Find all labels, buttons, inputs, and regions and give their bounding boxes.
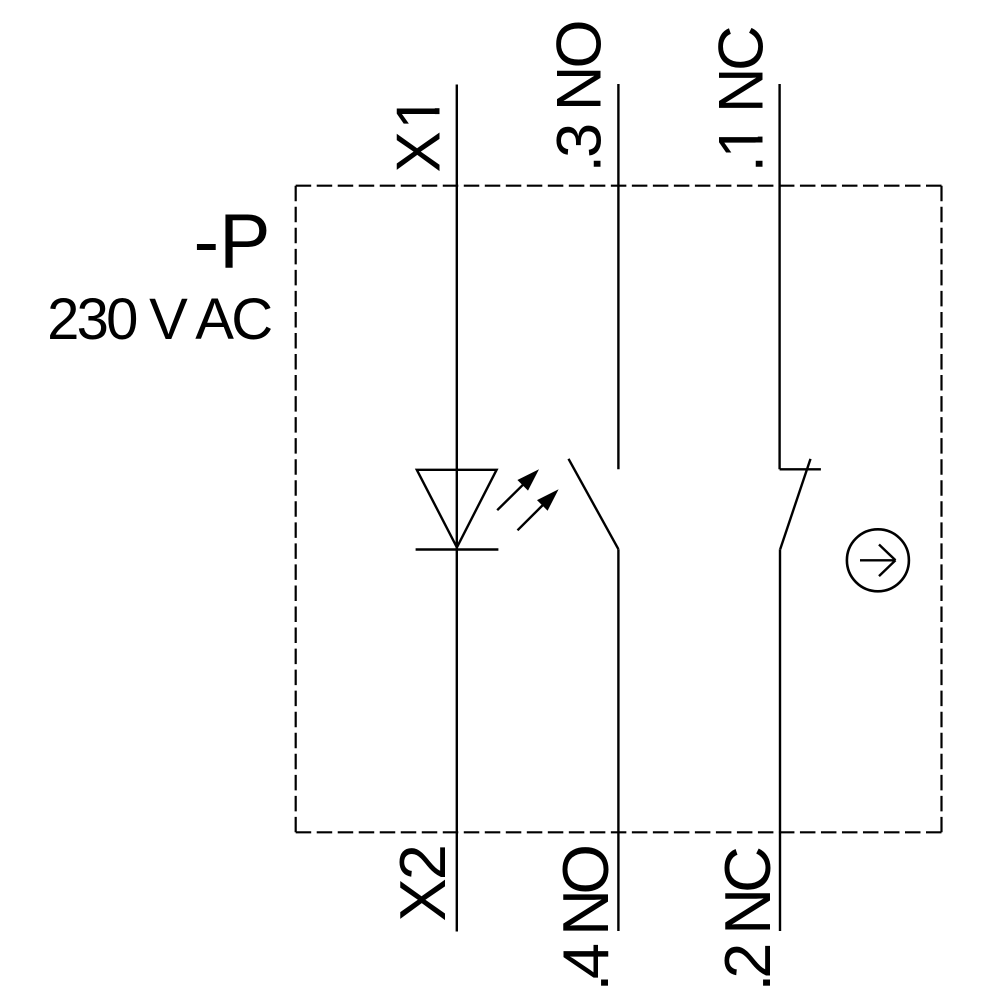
NO contact lower wire .4 [617,549,619,931]
svg-text:.1 NC: .1 NC [706,26,776,173]
NC contact upper wire .1 [778,84,780,469]
lamp LED triangle [417,470,497,548]
NO contact blade [569,459,619,549]
svg-text:.4 NO: .4 NO [549,844,622,992]
lamp cathode bar [416,548,499,550]
NC contact blade [780,459,810,549]
svg-text:230 V AC: 230 V AC [47,287,273,352]
terminal label .1 NC [706,26,776,173]
svg-text:X1: X1 [385,95,454,172]
lamp emission arrow 1 [497,469,539,510]
svg-text:-P: -P [194,199,271,285]
NO contact upper wire .3 [617,84,619,469]
lamp emission arrow 2 [518,489,559,530]
actuator arrow [860,545,896,577]
svg-text:.2 NC: .2 NC [711,846,784,992]
NC contact seat [780,468,821,470]
svg-text:X2: X2 [386,844,459,922]
svg-text:.3 NO: .3 NO [544,20,614,173]
terminal label X1 [385,95,454,172]
NC contact lower wire .2 [779,549,781,931]
actuator symbol circle [847,529,909,591]
dashed enclosure outline [296,186,942,833]
wire lamp branch X1-X2 [456,85,458,932]
